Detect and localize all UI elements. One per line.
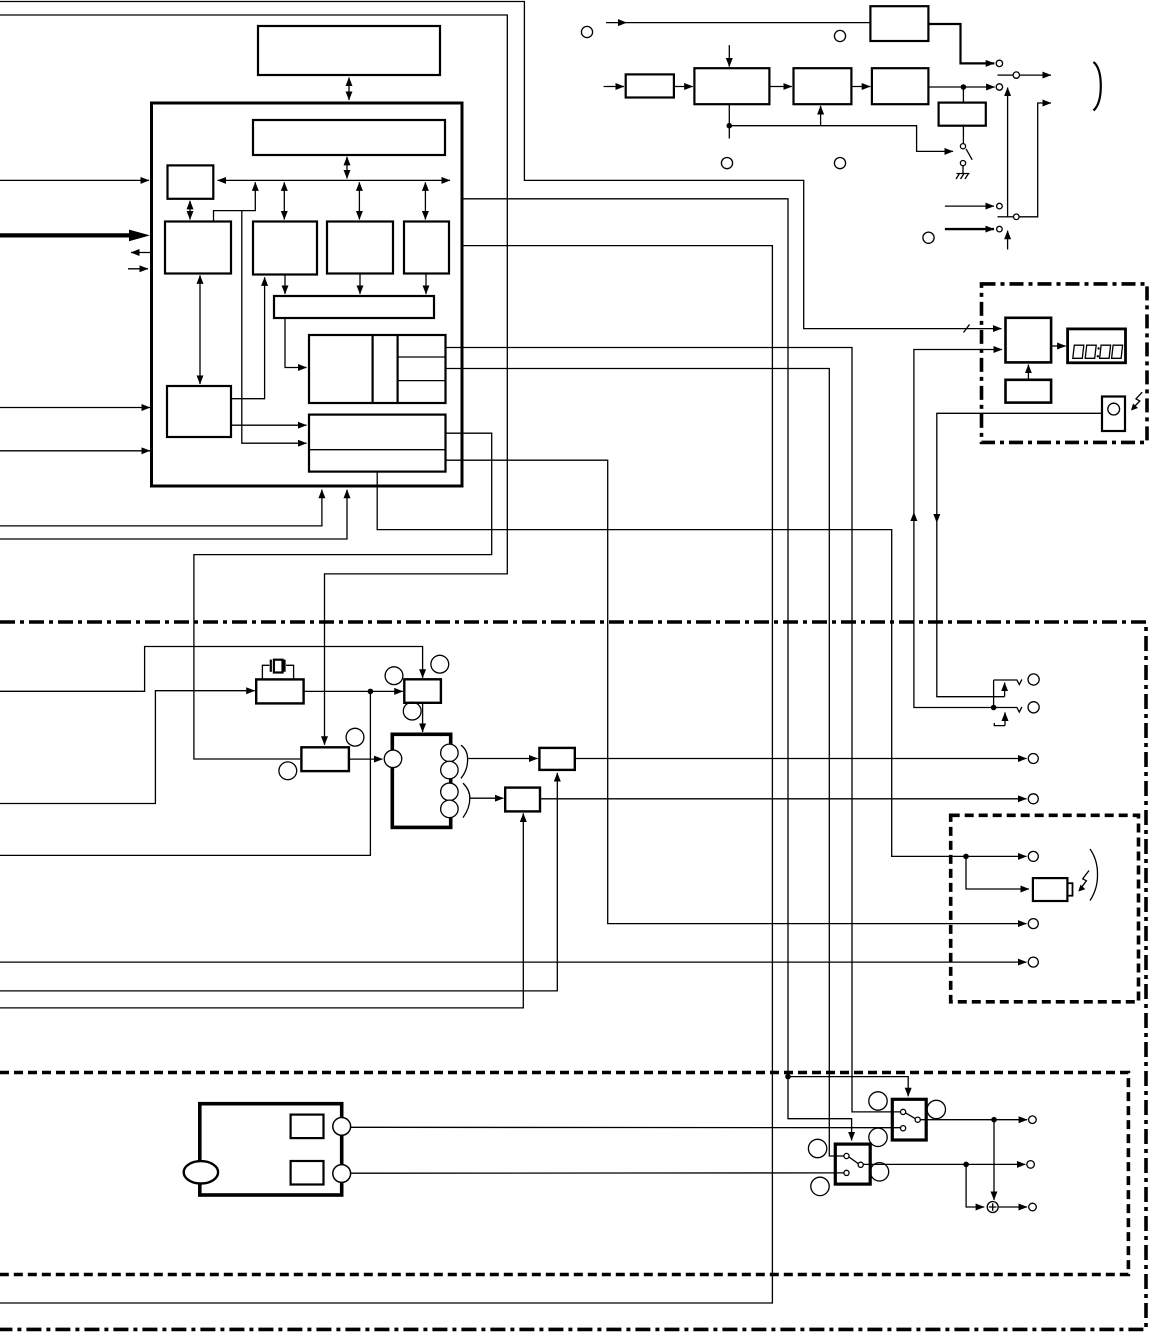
node terminal circle 2	[996, 84, 1002, 90]
wire crystal out to DSP	[304, 690, 403, 692]
node jack bottom circle	[1028, 702, 1039, 713]
digit 0 fourth	[1112, 345, 1123, 358]
wire D to terminal 2	[928, 86, 994, 88]
wire double arrow controller to CPU	[189, 201, 191, 220]
wire brace1 to amp1	[468, 758, 537, 760]
node sw2 contact top	[844, 1153, 849, 1158]
brace speaker	[1090, 849, 1098, 901]
node junction sw1 out	[991, 1117, 997, 1123]
wire brace2 to amp2	[470, 797, 504, 799]
wire jack top left vertical	[993, 680, 995, 708]
node terminal speaker 1	[1028, 851, 1038, 861]
node connector pin left	[384, 750, 402, 768]
wire sw1 lever	[906, 1113, 916, 1119]
node connector pin r1	[441, 744, 459, 762]
DC plug cross	[989, 1203, 997, 1211]
box PLL oscillator	[301, 747, 349, 771]
node terminal speaker 2	[1028, 919, 1038, 929]
box stage C	[794, 68, 852, 104]
wire double arrow RAM to bus	[346, 157, 348, 179]
wire mid up arrowhead	[910, 512, 917, 521]
wire thick arrowhead	[129, 230, 150, 242]
node circle input left	[581, 26, 592, 37]
wire common out upper	[1020, 74, 1052, 76]
wire backup to clock	[1027, 365, 1029, 380]
battery connector oval	[184, 1161, 218, 1183]
wire double arrow bus to block3	[358, 182, 360, 219]
wire audio amp divider	[309, 449, 446, 451]
box main IC U1	[152, 103, 463, 486]
wire tuner out 1 to power switch 1	[446, 348, 901, 1112]
wire input line 1 to DSP	[0, 647, 423, 692]
digit 0 third	[1100, 345, 1111, 358]
wire tuner right cell row line 1	[398, 356, 446, 358]
node terminal sw2 out	[1027, 1161, 1035, 1169]
brace pins bottom pair	[463, 783, 470, 818]
box clock display	[1068, 329, 1126, 363]
node circle below DSP	[403, 702, 421, 720]
node junction speaker branch	[963, 854, 969, 860]
box connector thick	[392, 734, 450, 827]
wire battery line 1	[351, 1126, 901, 1128]
box battery cell 2	[291, 1161, 324, 1185]
wire thick power arrow into IC	[0, 233, 129, 237]
wire input line 2 to crystal osc	[0, 691, 255, 804]
wire junction to DC plug	[966, 1164, 984, 1207]
box timer top right	[870, 6, 928, 41]
wire branch down to tuner control	[242, 211, 307, 444]
node sw1 circle c	[869, 1128, 887, 1146]
node connector pin r3	[441, 783, 459, 801]
wire power net branch to switch1	[788, 1077, 908, 1097]
wire key block to tuner block	[231, 424, 307, 426]
node battery terminal 1	[333, 1118, 351, 1136]
wire block3 down to bar	[359, 275, 361, 295]
node buzzer circle	[1108, 403, 1120, 415]
wire data bus	[218, 179, 451, 181]
wire tuner right cell row line 2	[398, 380, 446, 382]
wire mid arrowhead on long input	[618, 19, 627, 26]
wire amp2 to terminal	[540, 798, 1027, 800]
brace pins top pair	[461, 745, 468, 778]
wire feed amp1 bottom	[0, 773, 557, 991]
node sw1 circle b	[927, 1100, 945, 1118]
wire top border line B to PLL block	[0, 15, 507, 745]
digit 0 first	[1073, 345, 1084, 358]
wire feedback to switch lever	[729, 126, 953, 152]
wire block1 elbow to bus	[214, 182, 256, 221]
box amp1	[539, 748, 574, 770]
wire timer to terminal	[928, 24, 994, 63]
node contact circle thick	[997, 226, 1003, 232]
box controller small	[168, 165, 214, 198]
node floating circle b1	[834, 30, 845, 41]
node connector pin r2	[441, 761, 459, 779]
wire double arrow LCD to main IC	[348, 78, 350, 101]
wire amp out 1 to oscillator feed	[194, 433, 492, 759]
wire clock to display	[1051, 345, 1066, 347]
wire input to stage A	[604, 86, 624, 88]
node common circle upper	[1013, 72, 1019, 78]
wire cut input thin	[945, 205, 994, 207]
jack bottom tip line	[994, 707, 1022, 712]
node terminal out 2	[1028, 794, 1038, 804]
node sw2 contact bottom	[844, 1170, 849, 1175]
wire mech link upper	[1007, 88, 1009, 217]
box speaker section dashed	[951, 815, 1139, 1002]
wire A to B	[674, 86, 693, 88]
box main lower section dash-dot	[0, 622, 1146, 1329]
node junction crystal out	[368, 689, 374, 695]
node circle near DSP left	[385, 667, 403, 685]
wire mid down arrowhead	[933, 514, 940, 523]
DC plug symbol	[987, 1202, 998, 1213]
lightning alarm symbol	[1134, 392, 1143, 407]
wire IC right out 1 to power net	[462, 199, 852, 1141]
node power net dot	[785, 1074, 791, 1080]
crystal plate right	[283, 660, 285, 672]
box key block lower left	[167, 386, 231, 437]
wire key block up to block2	[231, 277, 265, 398]
node sw1 common	[915, 1117, 920, 1122]
wire bottom input 1 to IC	[0, 490, 322, 526]
wire double arrow block1 to key block	[199, 275, 201, 384]
node circle below PLL	[279, 762, 297, 780]
crystal X1 symbol	[262, 665, 293, 679]
wire mech link lower	[1007, 231, 1009, 250]
wire key scan line 1	[0, 407, 150, 409]
box stage A	[626, 74, 674, 97]
node junction sw2 out	[963, 1162, 969, 1168]
colon dots	[1097, 347, 1099, 349]
node floating circle sw	[923, 232, 934, 243]
wire common out lower routed up	[1019, 103, 1051, 217]
wire cut input thick	[945, 228, 994, 230]
node floating circle b2	[721, 158, 732, 169]
wire amp1 to line out	[575, 758, 1027, 760]
box alarm buzzer	[1102, 397, 1125, 432]
wire junction down into box E	[962, 87, 964, 102]
box tuner FM/AM	[309, 335, 446, 403]
node sw2 common	[858, 1162, 863, 1167]
node switch contact top	[960, 144, 965, 149]
node terminal line out	[1028, 754, 1038, 764]
node battery terminal 2	[333, 1165, 351, 1183]
wire sw2 lever	[849, 1157, 858, 1164]
node floating circle b3	[834, 158, 845, 169]
box amp2	[505, 788, 540, 812]
wire jack line up to clock	[914, 350, 1002, 708]
node sw2 circle b	[870, 1163, 888, 1181]
wire sw2 output	[863, 1163, 1025, 1165]
wire crossbar upper	[998, 74, 1014, 76]
node sw2 circle c	[811, 1177, 829, 1195]
wire jack top contact arrow	[1004, 683, 1006, 697]
ground chassis	[956, 166, 970, 179]
node terminal speaker 3	[1028, 957, 1038, 967]
node junction B bottom	[727, 123, 733, 129]
wire feedback up into C	[820, 106, 822, 126]
node jack junction dot	[991, 705, 997, 711]
box backup block	[1006, 380, 1052, 403]
wire tuner divider 2	[397, 335, 399, 403]
wire PLL out to connector circle	[349, 758, 383, 760]
wire double arrow bus to block2	[283, 182, 285, 219]
box block3	[327, 222, 393, 274]
wire B to C	[769, 86, 792, 88]
box clock controller	[1006, 318, 1052, 363]
node terminal sw1 out	[1029, 1116, 1037, 1124]
box E mute	[939, 103, 986, 126]
box battery cell 1	[291, 1115, 324, 1139]
wire sw1 output	[920, 1119, 1027, 1121]
wire long input top right	[606, 22, 870, 24]
wire in stub right	[128, 268, 148, 270]
box interface bar	[274, 296, 434, 318]
crystal plate left	[270, 660, 272, 672]
wire bottom input 2 to IC	[0, 490, 347, 539]
wire tuner out 2 to power switch 2	[446, 369, 844, 1157]
box power section dashed	[0, 1073, 1128, 1275]
node circle near DSP right	[431, 655, 449, 673]
wire amp out 2 to speaker line 2	[446, 460, 1027, 923]
node switch contact bottom	[960, 161, 965, 166]
wire tuner divider 1	[372, 335, 374, 403]
brace output group top right	[1094, 62, 1101, 111]
node common circle lower	[1014, 214, 1020, 220]
node jack top circle	[1028, 674, 1039, 685]
box block4	[404, 222, 449, 274]
wire out stub left	[131, 252, 151, 254]
switch S1 below box E	[962, 126, 964, 144]
lightning speaker symbol	[1081, 871, 1089, 889]
wire input down into B	[728, 45, 730, 67]
wire block2 down to bar	[284, 276, 286, 295]
wire C to D	[851, 86, 870, 88]
wire alarm line down to jack	[937, 413, 1102, 696]
box power switch 1	[892, 1099, 926, 1140]
wire junction down to left rail	[0, 691, 370, 855]
wire block4 down to bar	[425, 275, 427, 295]
wire junction down to DC jack	[993, 1120, 995, 1200]
digit 0 second	[1085, 345, 1096, 358]
box crystal oscillator	[256, 679, 303, 703]
box battery pack	[200, 1104, 342, 1195]
node junction D out	[961, 84, 967, 90]
box speaker nub	[1067, 883, 1072, 896]
node sw1 contact bottom	[901, 1126, 906, 1131]
box power switch 2	[835, 1144, 870, 1184]
wire bar to tuner box	[285, 319, 307, 368]
box stage B	[694, 68, 769, 104]
wire audio output down to headphone feed	[377, 472, 1026, 857]
box internal RAM wide	[253, 120, 445, 155]
node sw1 contact top	[901, 1109, 906, 1114]
wire IC right out 2 to bottom rail	[0, 246, 772, 1303]
node circle above PLL	[346, 728, 364, 746]
wire switch lever	[966, 149, 972, 160]
lightning arrowhead	[1131, 404, 1138, 411]
wire feed amp2 bottom	[0, 813, 523, 1008]
node contact circle thin	[997, 203, 1003, 209]
wire DC plug out	[998, 1206, 1027, 1208]
jack headphone top tip line	[994, 679, 1022, 684]
box speaker	[1033, 878, 1068, 901]
crystal body	[274, 660, 283, 673]
wire battery line 2	[351, 1172, 844, 1174]
wire jack bottom contact arrow	[1004, 712, 1006, 725]
node terminal DC out	[1029, 1203, 1037, 1211]
node connector pin r4	[441, 800, 459, 818]
node sw2 circle a	[808, 1139, 826, 1157]
wire double arrow bus to block4	[424, 182, 426, 219]
wire branch to speaker	[966, 856, 1029, 889]
node terminal circle 1	[996, 60, 1002, 66]
wire slash interference mark on line A	[964, 325, 970, 333]
box CPU block1	[165, 222, 231, 274]
node sw1 circle a	[869, 1092, 887, 1110]
box audio amp lower	[309, 415, 446, 472]
box DSP small	[404, 679, 441, 703]
wire key scan line 2	[0, 450, 150, 452]
wire jack bottom stub contact	[994, 723, 1005, 726]
box display/LCD top	[258, 26, 440, 75]
box block2	[253, 222, 317, 275]
wire crossbar lower	[998, 216, 1014, 218]
wire top border line A to clock block	[0, 2, 1002, 329]
box clock section dash-dot	[982, 284, 1148, 443]
lightning speaker arrowhead	[1078, 885, 1085, 892]
wire B bottom feedback rail	[728, 104, 730, 138]
box stage D	[872, 68, 929, 104]
wire DSP down to connector	[422, 703, 424, 732]
wire serial data into IC	[0, 179, 149, 181]
wire speaker line 3	[0, 961, 1027, 963]
